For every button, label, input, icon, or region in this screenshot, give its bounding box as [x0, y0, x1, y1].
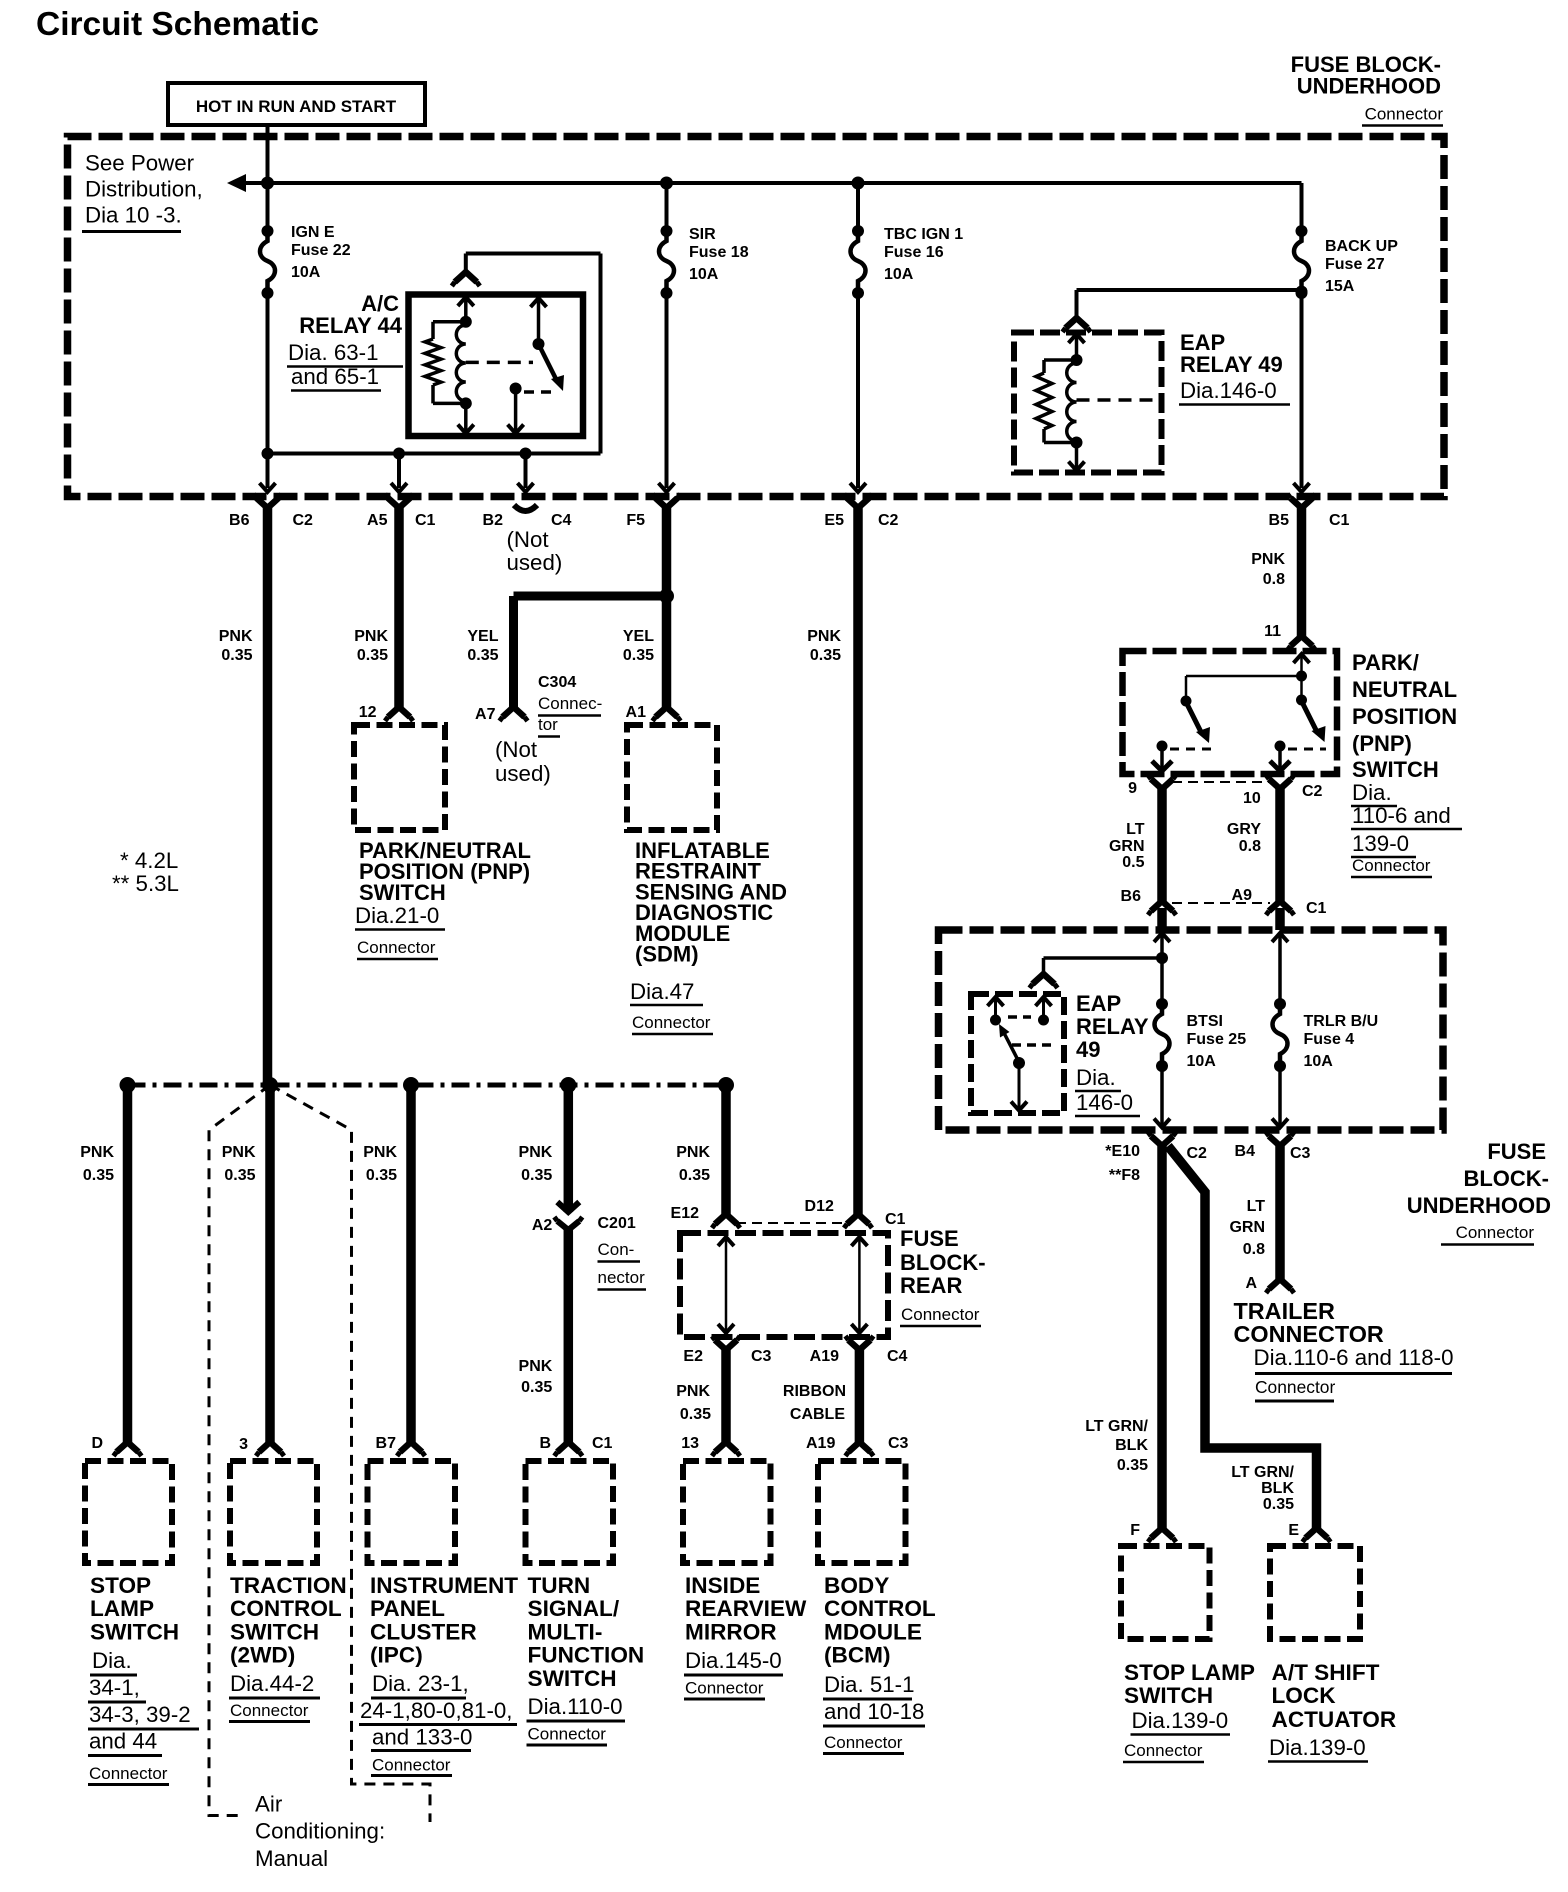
svg-text:0.35: 0.35 — [366, 1167, 397, 1184]
svg-text:Connector: Connector — [824, 1733, 903, 1752]
svg-text:34-3, 39-2: 34-3, 39-2 — [89, 1702, 191, 1727]
svg-text:BACK UP: BACK UP — [1325, 238, 1398, 255]
svg-text:INSTRUMENT: INSTRUMENT — [370, 1573, 518, 1598]
svg-text:used): used) — [507, 550, 563, 575]
svg-text:10A: 10A — [1187, 1053, 1217, 1070]
svg-text:BLK: BLK — [1261, 1480, 1294, 1497]
svg-text:3: 3 — [239, 1436, 248, 1453]
svg-text:nector: nector — [598, 1268, 646, 1287]
svg-text:C2: C2 — [878, 512, 899, 529]
svg-text:**F8: **F8 — [1109, 1167, 1140, 1184]
svg-text:TBC IGN 1: TBC IGN 1 — [884, 226, 963, 243]
svg-text:REARVIEW: REARVIEW — [685, 1596, 807, 1621]
svg-text:and 133-0: and 133-0 — [372, 1725, 472, 1750]
svg-text:Connector: Connector — [1352, 856, 1431, 875]
svg-text:C2: C2 — [1302, 783, 1323, 800]
svg-text:Connector: Connector — [1255, 1377, 1335, 1397]
svg-text:STOP: STOP — [90, 1573, 151, 1598]
svg-text:0.35: 0.35 — [680, 1406, 711, 1423]
svg-text:Fuse 16: Fuse 16 — [884, 244, 944, 261]
svg-text:Fuse 18: Fuse 18 — [689, 244, 749, 261]
svg-text:FUSE: FUSE — [1487, 1139, 1546, 1164]
svg-text:10A: 10A — [291, 264, 321, 281]
svg-text:B7: B7 — [376, 1435, 397, 1452]
svg-text:B: B — [539, 1435, 551, 1452]
svg-text:139-0: 139-0 — [1352, 831, 1409, 856]
svg-text:Fuse 4: Fuse 4 — [1304, 1031, 1355, 1048]
svg-text:E: E — [1288, 1522, 1299, 1539]
svg-text:tor: tor — [538, 715, 558, 734]
svg-text:Connector: Connector — [1124, 1741, 1203, 1760]
svg-text:0.8: 0.8 — [1239, 838, 1261, 855]
svg-text:Fuse 27: Fuse 27 — [1325, 256, 1385, 273]
svg-text:A/T SHIFT: A/T SHIFT — [1272, 1660, 1380, 1685]
svg-text:LOCK: LOCK — [1272, 1683, 1337, 1708]
svg-text:E2: E2 — [683, 1348, 703, 1365]
svg-text:12: 12 — [359, 704, 377, 721]
svg-text:(PNP): (PNP) — [1352, 731, 1412, 756]
svg-text:0.35: 0.35 — [810, 647, 841, 664]
svg-text:Connector: Connector — [230, 1701, 309, 1720]
svg-text:0.8: 0.8 — [1263, 571, 1285, 588]
svg-text:*E10: *E10 — [1105, 1143, 1140, 1160]
svg-text:Conditioning:: Conditioning: — [255, 1819, 385, 1844]
svg-text:RELAY 44: RELAY 44 — [299, 313, 402, 338]
svg-text:Dia.21-0: Dia.21-0 — [355, 903, 439, 928]
svg-text:PNK: PNK — [80, 1144, 114, 1161]
svg-text:PANEL: PANEL — [370, 1596, 445, 1621]
svg-text:Connector: Connector — [901, 1305, 980, 1324]
svg-text:Connector: Connector — [357, 938, 436, 957]
svg-text:Dia.110-0: Dia.110-0 — [528, 1694, 623, 1719]
svg-text:ACTUATOR: ACTUATOR — [1272, 1707, 1397, 1732]
svg-text:LT: LT — [1247, 1198, 1266, 1215]
svg-text:Dia. 51-1: Dia. 51-1 — [824, 1672, 914, 1697]
svg-text:B5: B5 — [1269, 512, 1290, 529]
svg-text:A19: A19 — [806, 1435, 835, 1452]
svg-text:Dia.: Dia. — [1076, 1065, 1116, 1090]
svg-text:MIRROR: MIRROR — [685, 1619, 777, 1644]
svg-text:Dia.: Dia. — [1352, 780, 1392, 805]
svg-text:SWITCH: SWITCH — [1124, 1683, 1213, 1708]
svg-text:and 10-18: and 10-18 — [824, 1699, 924, 1724]
svg-text:9: 9 — [1128, 780, 1137, 797]
svg-text:C3: C3 — [751, 1348, 772, 1365]
svg-text:11: 11 — [1264, 623, 1281, 640]
svg-text:GRN: GRN — [1229, 1219, 1265, 1236]
svg-text:PNK: PNK — [807, 628, 841, 645]
svg-text:A1: A1 — [626, 704, 647, 721]
svg-text:B2: B2 — [483, 512, 504, 529]
svg-text:(Not: (Not — [507, 527, 550, 552]
svg-text:C4: C4 — [551, 512, 572, 529]
svg-text:C1: C1 — [415, 512, 436, 529]
svg-text:MULTI-: MULTI- — [528, 1619, 603, 1644]
svg-text:D: D — [91, 1435, 103, 1452]
svg-text:PNK: PNK — [363, 1144, 397, 1161]
svg-text:Fuse 22: Fuse 22 — [291, 242, 351, 259]
svg-text:BLK: BLK — [1115, 1437, 1148, 1454]
svg-text:0.35: 0.35 — [357, 647, 388, 664]
svg-text:10A: 10A — [884, 266, 914, 283]
svg-text:C4: C4 — [887, 1348, 908, 1365]
svg-text:and 44: and 44 — [89, 1729, 157, 1754]
svg-text:Dia.44-2: Dia.44-2 — [230, 1671, 314, 1696]
svg-text:49: 49 — [1076, 1037, 1100, 1062]
svg-text:C304: C304 — [538, 674, 576, 691]
svg-text:A: A — [1245, 1275, 1257, 1292]
svg-text:SWITCH: SWITCH — [1352, 757, 1439, 782]
svg-text:B6: B6 — [229, 512, 250, 529]
svg-text:Connector: Connector — [685, 1679, 764, 1698]
svg-text:0.35: 0.35 — [224, 1167, 255, 1184]
svg-text:UNDERHOOD: UNDERHOOD — [1407, 1193, 1551, 1218]
svg-text:PNK: PNK — [519, 1358, 553, 1375]
svg-text:A2: A2 — [532, 1217, 553, 1234]
svg-text:LT GRN/: LT GRN/ — [1085, 1418, 1148, 1435]
svg-text:0.35: 0.35 — [679, 1167, 710, 1184]
svg-text:C2: C2 — [293, 512, 314, 529]
svg-text:SIR: SIR — [689, 226, 716, 243]
svg-text:TURN: TURN — [528, 1573, 591, 1598]
svg-text:** 5.3L: ** 5.3L — [112, 871, 179, 896]
svg-text:Connector: Connector — [632, 1013, 711, 1032]
svg-text:10A: 10A — [1304, 1053, 1334, 1070]
svg-text:15A: 15A — [1325, 278, 1355, 295]
svg-text:PARK/: PARK/ — [1352, 650, 1419, 675]
svg-text:and 65-1: and 65-1 — [291, 364, 379, 389]
svg-text:Dia.139-0: Dia.139-0 — [1132, 1708, 1229, 1733]
svg-text:PNK: PNK — [676, 1383, 710, 1400]
svg-text:LT: LT — [1126, 821, 1145, 838]
svg-text:0.35: 0.35 — [521, 1167, 552, 1184]
svg-text:Connector: Connector — [528, 1725, 607, 1744]
svg-text:0.35: 0.35 — [623, 647, 654, 664]
svg-text:BODY: BODY — [824, 1573, 889, 1598]
svg-text:A19: A19 — [810, 1348, 839, 1365]
svg-text:INSIDE: INSIDE — [685, 1573, 760, 1598]
svg-text:RELAY 49: RELAY 49 — [1180, 352, 1283, 377]
svg-text:* 4.2L: * 4.2L — [120, 848, 178, 873]
svg-text:C201: C201 — [598, 1215, 636, 1232]
svg-text:Fuse 25: Fuse 25 — [1187, 1031, 1247, 1048]
svg-text:REAR: REAR — [900, 1273, 962, 1298]
svg-text:110-6 and: 110-6 and — [1352, 803, 1451, 828]
svg-text:FUSE: FUSE — [900, 1226, 959, 1251]
svg-text:F5: F5 — [626, 512, 645, 529]
svg-text:Dia.139-0: Dia.139-0 — [1269, 1735, 1366, 1760]
svg-text:used): used) — [495, 761, 551, 786]
svg-text:Con-: Con- — [598, 1240, 635, 1259]
svg-text:CONTROL: CONTROL — [824, 1596, 936, 1621]
svg-text:0.35: 0.35 — [1263, 1496, 1294, 1513]
svg-text:Air: Air — [255, 1792, 283, 1817]
svg-text:GRN: GRN — [1109, 838, 1145, 855]
svg-text:10A: 10A — [689, 266, 719, 283]
svg-text:0.35: 0.35 — [467, 647, 498, 664]
svg-text:D12: D12 — [805, 1198, 834, 1215]
svg-text:Dia.: Dia. — [92, 1648, 132, 1673]
svg-text:(2WD): (2WD) — [230, 1643, 295, 1668]
svg-text:B4: B4 — [1235, 1143, 1256, 1160]
svg-text:0.35: 0.35 — [83, 1167, 114, 1184]
svg-text:BLOCK-: BLOCK- — [1463, 1166, 1549, 1191]
svg-text:CONNECTOR: CONNECTOR — [1234, 1321, 1384, 1347]
svg-text:NEUTRAL: NEUTRAL — [1352, 677, 1457, 702]
svg-text:LAMP: LAMP — [90, 1596, 154, 1621]
svg-text:SIGNAL/: SIGNAL/ — [528, 1596, 620, 1621]
svg-text:C1: C1 — [1306, 900, 1327, 917]
svg-text:24-1,80-0,81-0,: 24-1,80-0,81-0, — [360, 1698, 512, 1723]
svg-text:(SDM): (SDM) — [635, 942, 699, 967]
svg-text:POSITION: POSITION — [1352, 704, 1457, 729]
svg-text:Connector: Connector — [372, 1756, 451, 1775]
svg-text:RELAY: RELAY — [1076, 1014, 1149, 1039]
svg-text:A7: A7 — [475, 706, 496, 723]
svg-text:See Power: See Power — [85, 151, 195, 176]
svg-text:SWITCH: SWITCH — [90, 1619, 179, 1644]
svg-text:SWITCH: SWITCH — [359, 880, 446, 905]
svg-text:C1: C1 — [1329, 512, 1350, 529]
svg-text:CLUSTER: CLUSTER — [370, 1619, 477, 1644]
svg-text:PNK: PNK — [1251, 551, 1285, 568]
svg-text:0.35: 0.35 — [521, 1379, 552, 1396]
svg-text:0.35: 0.35 — [221, 647, 252, 664]
svg-text:F: F — [1130, 1522, 1140, 1539]
svg-text:BTSI: BTSI — [1187, 1013, 1223, 1030]
svg-text:PNK: PNK — [519, 1144, 553, 1161]
svg-text:(IPC): (IPC) — [370, 1643, 423, 1668]
svg-text:PNK: PNK — [219, 628, 253, 645]
svg-text:Dia 10 -3.: Dia 10 -3. — [85, 203, 182, 228]
svg-text:C3: C3 — [888, 1435, 909, 1452]
svg-text:Connector: Connector — [89, 1764, 168, 1783]
svg-text:LT GRN/: LT GRN/ — [1231, 1464, 1294, 1481]
svg-text:Dia.47: Dia.47 — [630, 979, 694, 1004]
svg-text:SWITCH: SWITCH — [528, 1666, 617, 1691]
svg-text:Distribution,: Distribution, — [85, 177, 203, 202]
svg-text:BLOCK-: BLOCK- — [900, 1250, 986, 1275]
svg-text:(BCM): (BCM) — [824, 1643, 891, 1668]
svg-text:TRLR B/U: TRLR B/U — [1304, 1013, 1379, 1030]
svg-text:HOT IN RUN AND START: HOT IN RUN AND START — [196, 97, 397, 116]
svg-text:Manual: Manual — [255, 1846, 328, 1871]
svg-text:C1: C1 — [592, 1435, 613, 1452]
svg-text:0.8: 0.8 — [1243, 1241, 1265, 1258]
svg-text:34-1,: 34-1, — [89, 1675, 140, 1700]
svg-text:CONTROL: CONTROL — [230, 1596, 342, 1621]
svg-text:PNK: PNK — [222, 1144, 256, 1161]
svg-text:B6: B6 — [1121, 888, 1142, 905]
svg-text:TRACTION: TRACTION — [230, 1573, 347, 1598]
svg-text:Dia. 23-1,: Dia. 23-1, — [372, 1671, 469, 1696]
svg-text:IGN E: IGN E — [291, 224, 335, 241]
svg-text:C3: C3 — [1290, 1145, 1311, 1162]
svg-text:STOP LAMP: STOP LAMP — [1124, 1660, 1255, 1685]
svg-text:Dia.110-6 and 118-0: Dia.110-6 and 118-0 — [1254, 1345, 1454, 1370]
svg-text:(Not: (Not — [495, 737, 538, 762]
svg-text:10: 10 — [1243, 790, 1261, 807]
svg-text:Circuit Schematic: Circuit Schematic — [36, 6, 319, 43]
svg-text:MDOULE: MDOULE — [824, 1619, 922, 1644]
svg-text:GRY: GRY — [1227, 821, 1261, 838]
svg-text:E5: E5 — [824, 512, 844, 529]
svg-text:146-0: 146-0 — [1076, 1090, 1133, 1115]
svg-text:CABLE: CABLE — [790, 1406, 845, 1423]
svg-text:A5: A5 — [367, 512, 388, 529]
svg-text:0.5: 0.5 — [1122, 854, 1144, 871]
svg-text:PNK: PNK — [354, 628, 388, 645]
svg-text:UNDERHOOD: UNDERHOOD — [1297, 74, 1441, 99]
svg-text:PNK: PNK — [676, 1144, 710, 1161]
svg-text:Dia.145-0: Dia.145-0 — [685, 1648, 782, 1673]
svg-text:SWITCH: SWITCH — [230, 1619, 319, 1644]
svg-text:0.35: 0.35 — [1117, 1457, 1148, 1474]
svg-text:Dia.146-0: Dia.146-0 — [1180, 378, 1277, 403]
svg-text:YEL: YEL — [623, 628, 654, 645]
svg-text:A9: A9 — [1232, 887, 1253, 904]
svg-text:Connec-: Connec- — [538, 694, 602, 713]
svg-text:EAP: EAP — [1076, 991, 1121, 1016]
svg-text:FUNCTION: FUNCTION — [528, 1643, 645, 1668]
svg-text:Connector: Connector — [1456, 1223, 1535, 1242]
svg-text:YEL: YEL — [467, 628, 498, 645]
svg-text:Dia. 63-1: Dia. 63-1 — [288, 340, 378, 365]
svg-text:C2: C2 — [1187, 1145, 1208, 1162]
svg-text:RIBBON: RIBBON — [783, 1383, 846, 1400]
svg-text:Connector: Connector — [1365, 105, 1444, 124]
svg-text:13: 13 — [681, 1435, 699, 1452]
svg-text:E12: E12 — [671, 1205, 700, 1222]
